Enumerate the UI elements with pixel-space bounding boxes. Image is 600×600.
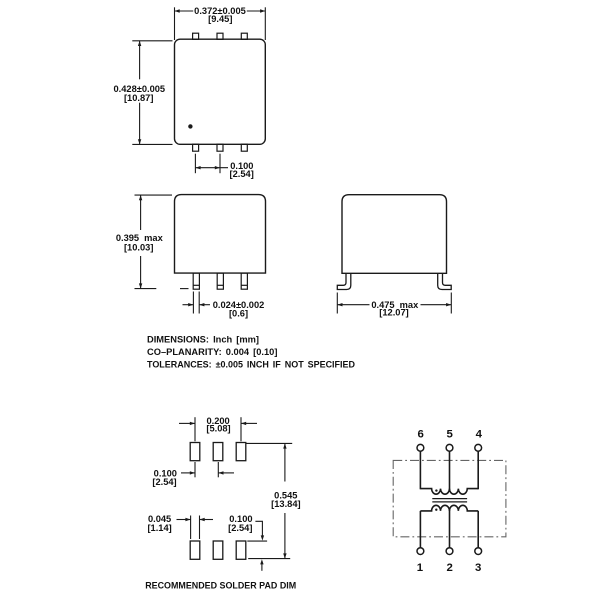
side view gull-wing lead right (438, 273, 452, 289)
svg-text:0.395 max: 0.395 max (116, 233, 164, 243)
svg-text:[12.07]: [12.07] (379, 307, 408, 317)
wire pin2 from secondary winding tap (449, 508, 451, 548)
dimension 0.428±0.005 [10.87] height, left (132, 40, 172, 42)
svg-text:RECOMMENDED SOLDER PAD DIM: RECOMMENDED SOLDER PAD DIM (145, 580, 296, 590)
side view gull-wing lead left (337, 273, 351, 289)
wire pin4 to primary winding (477, 451, 479, 489)
terminal 2 circle (446, 548, 453, 555)
secondary winding bottom (420, 505, 478, 511)
front view leads with solder tips (193, 273, 199, 289)
svg-text:[5.08]: [5.08] (206, 423, 230, 433)
svg-text:[13.84]: [13.84] (271, 499, 300, 509)
svg-text:CO–PLANARITY: 0.004 [0.10]: CO–PLANARITY: 0.004 [0.10] (147, 347, 277, 357)
primary polarity dot (435, 489, 437, 491)
top view package body (175, 39, 266, 144)
wire pin3 from secondary winding (477, 511, 479, 548)
transformer core lines (432, 498, 467, 500)
svg-text:DIMENSIONS: Inch [mm]: DIMENSIONS: Inch [mm] (147, 335, 259, 345)
svg-text:[10.87]: [10.87] (124, 93, 153, 103)
svg-text:[0.6]: [0.6] (229, 308, 248, 318)
dash-dot package boundary box (393, 460, 506, 536)
top view pin row (bottom) P1 P2 P3 (193, 144, 199, 151)
terminal 6 circle (417, 444, 424, 451)
side view package body (342, 195, 447, 274)
front view package body (175, 195, 266, 274)
svg-text:[2.54]: [2.54] (228, 523, 252, 533)
terminal 1 circle (417, 548, 424, 555)
terminal 5 circle (446, 444, 453, 451)
wire pin6 to primary winding (419, 451, 421, 489)
solder pad bottom row (190, 541, 200, 559)
svg-text:5: 5 (447, 429, 454, 441)
svg-text:[2.54]: [2.54] (230, 169, 254, 179)
dimension 0.372±0.005 [9.45] width, top (174, 7, 176, 40)
svg-text:[2.54]: [2.54] (152, 477, 176, 487)
dimension 0.545 [13.84] overall pad field height (246, 442, 292, 444)
wire pin1 from secondary winding (419, 511, 421, 548)
svg-text:4: 4 (476, 429, 483, 441)
wire pin5 to primary winding tap (449, 451, 451, 492)
dimension 0.045 [1.14] pad width (190, 516, 192, 540)
svg-text:[9.45]: [9.45] (208, 14, 232, 24)
dimension 0.024±0.002 [0.6] lead width (192, 292, 194, 314)
svg-text:2: 2 (447, 562, 453, 574)
svg-text:[1.14]: [1.14] (147, 523, 171, 533)
solder pad top row (190, 443, 200, 461)
primary winding top (420, 489, 478, 495)
dimension 0.475 max [12.07] lead span (336, 293, 338, 314)
svg-text:TOLERANCES: ±0.005 INCH IF NOT: TOLERANCES: ±0.005 INCH IF NOT SPECIFIED (147, 359, 355, 369)
terminal 4 circle (475, 444, 482, 451)
dimension 0.200 [5.08] pad span (194, 417, 196, 441)
secondary polarity dot (435, 509, 437, 511)
pin 1 index dot (188, 124, 192, 128)
top view pin row (top) P6 P5 P4 (193, 33, 199, 39)
dimension 0.395 max [10.03] height, left (135, 194, 173, 196)
dimension 0.100 [2.54] pin pitch, below top view (194, 154, 196, 174)
svg-text:3: 3 (475, 562, 481, 574)
dimension 0.100 [2.54] pad pitch (194, 462, 196, 477)
svg-text:[10.03]: [10.03] (124, 243, 153, 253)
terminal 3 circle (475, 548, 482, 555)
svg-text:1: 1 (417, 562, 424, 574)
svg-text:6: 6 (418, 429, 424, 441)
